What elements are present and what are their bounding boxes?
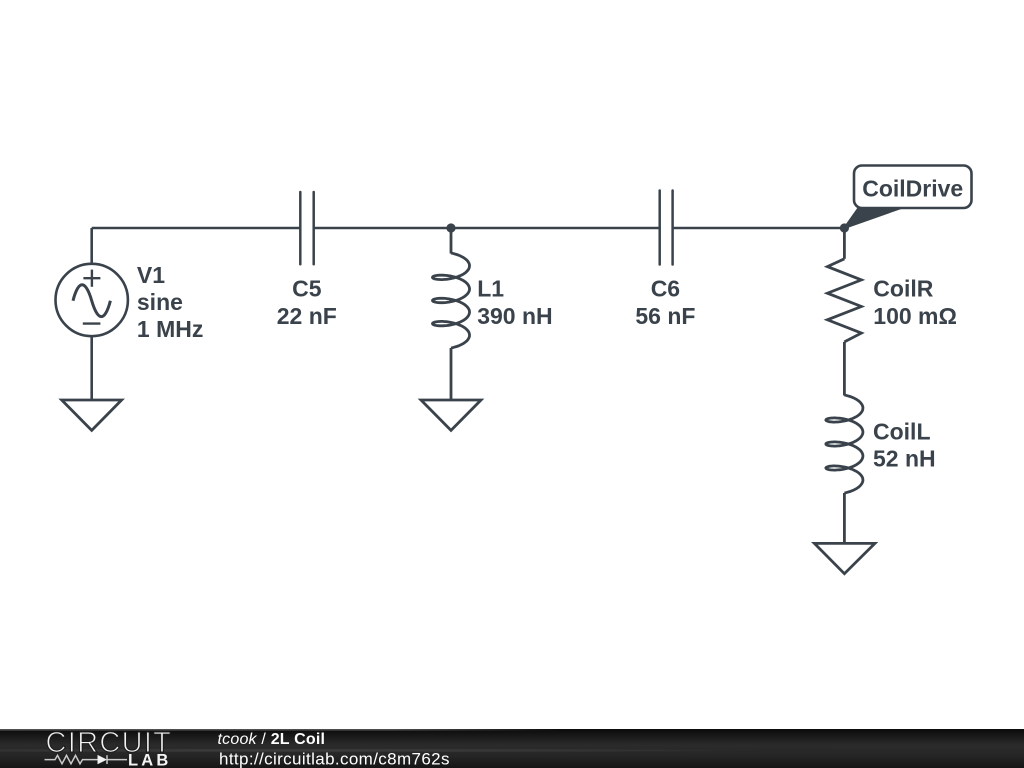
wire top-left: V1 to C5	[92, 227, 301, 230]
svg-text:390 nH: 390 nH	[477, 303, 552, 329]
resistor CoilR	[827, 228, 861, 396]
flag CoilDrive pointer wedge	[844, 208, 901, 228]
svg-text:100 mΩ: 100 mΩ	[873, 303, 957, 329]
label L1 390 nH	[477, 276, 552, 329]
svg-text:tcook / 2L Coil: tcook / 2L Coil	[218, 731, 326, 748]
label C5 22 nF	[277, 276, 337, 329]
logo resistor + diode doodle	[45, 755, 128, 764]
capacitor C6	[660, 191, 673, 265]
inductor CoilL	[826, 395, 863, 544]
svg-text:22 nF: 22 nF	[277, 303, 337, 329]
svg-text:CoilDrive: CoilDrive	[862, 175, 963, 201]
svg-text:CoilR: CoilR	[873, 276, 933, 302]
ground GND1 (below V1)	[62, 400, 122, 430]
flag CoilDrive box	[854, 166, 972, 209]
wire: C5 to node A	[314, 227, 451, 230]
ground GND2 (below L1)	[421, 400, 481, 430]
voltage source V1	[55, 228, 127, 400]
svg-text:V1: V1	[137, 262, 165, 288]
svg-text:sine: sine	[137, 289, 183, 315]
wire: C6 to node CoilDrive	[673, 227, 845, 230]
svg-text:L1: L1	[477, 276, 504, 302]
node A (junction dot)	[446, 223, 455, 232]
svg-text:52 nH: 52 nH	[873, 445, 936, 471]
footer bar	[0, 729, 1024, 768]
label C6 56 nF	[635, 276, 695, 329]
label CoilL 52 nH	[873, 418, 936, 471]
footer bar top highlight line	[0, 729, 560, 730]
label CoilR 100 mOhm	[873, 276, 957, 329]
svg-text:56 nF: 56 nF	[635, 303, 695, 329]
capacitor C5	[300, 192, 313, 264]
wire: node A to C6	[451, 227, 660, 230]
node CoilDrive (junction dot)	[840, 223, 849, 232]
svg-text:CoilL: CoilL	[873, 418, 931, 444]
svg-text:LAB: LAB	[128, 752, 172, 768]
label V1 sine 1 MHz	[137, 262, 203, 342]
footer bar glow	[0, 729, 1024, 768]
svg-text:C5: C5	[292, 276, 322, 302]
svg-text:http://circuitlab.com/c8m762s: http://circuitlab.com/c8m762s	[219, 749, 450, 768]
svg-text:C6: C6	[651, 276, 680, 302]
ground GND3 (below CoilL)	[814, 543, 875, 573]
inductor L1	[433, 228, 470, 400]
svg-text:1 MHz: 1 MHz	[137, 316, 203, 342]
